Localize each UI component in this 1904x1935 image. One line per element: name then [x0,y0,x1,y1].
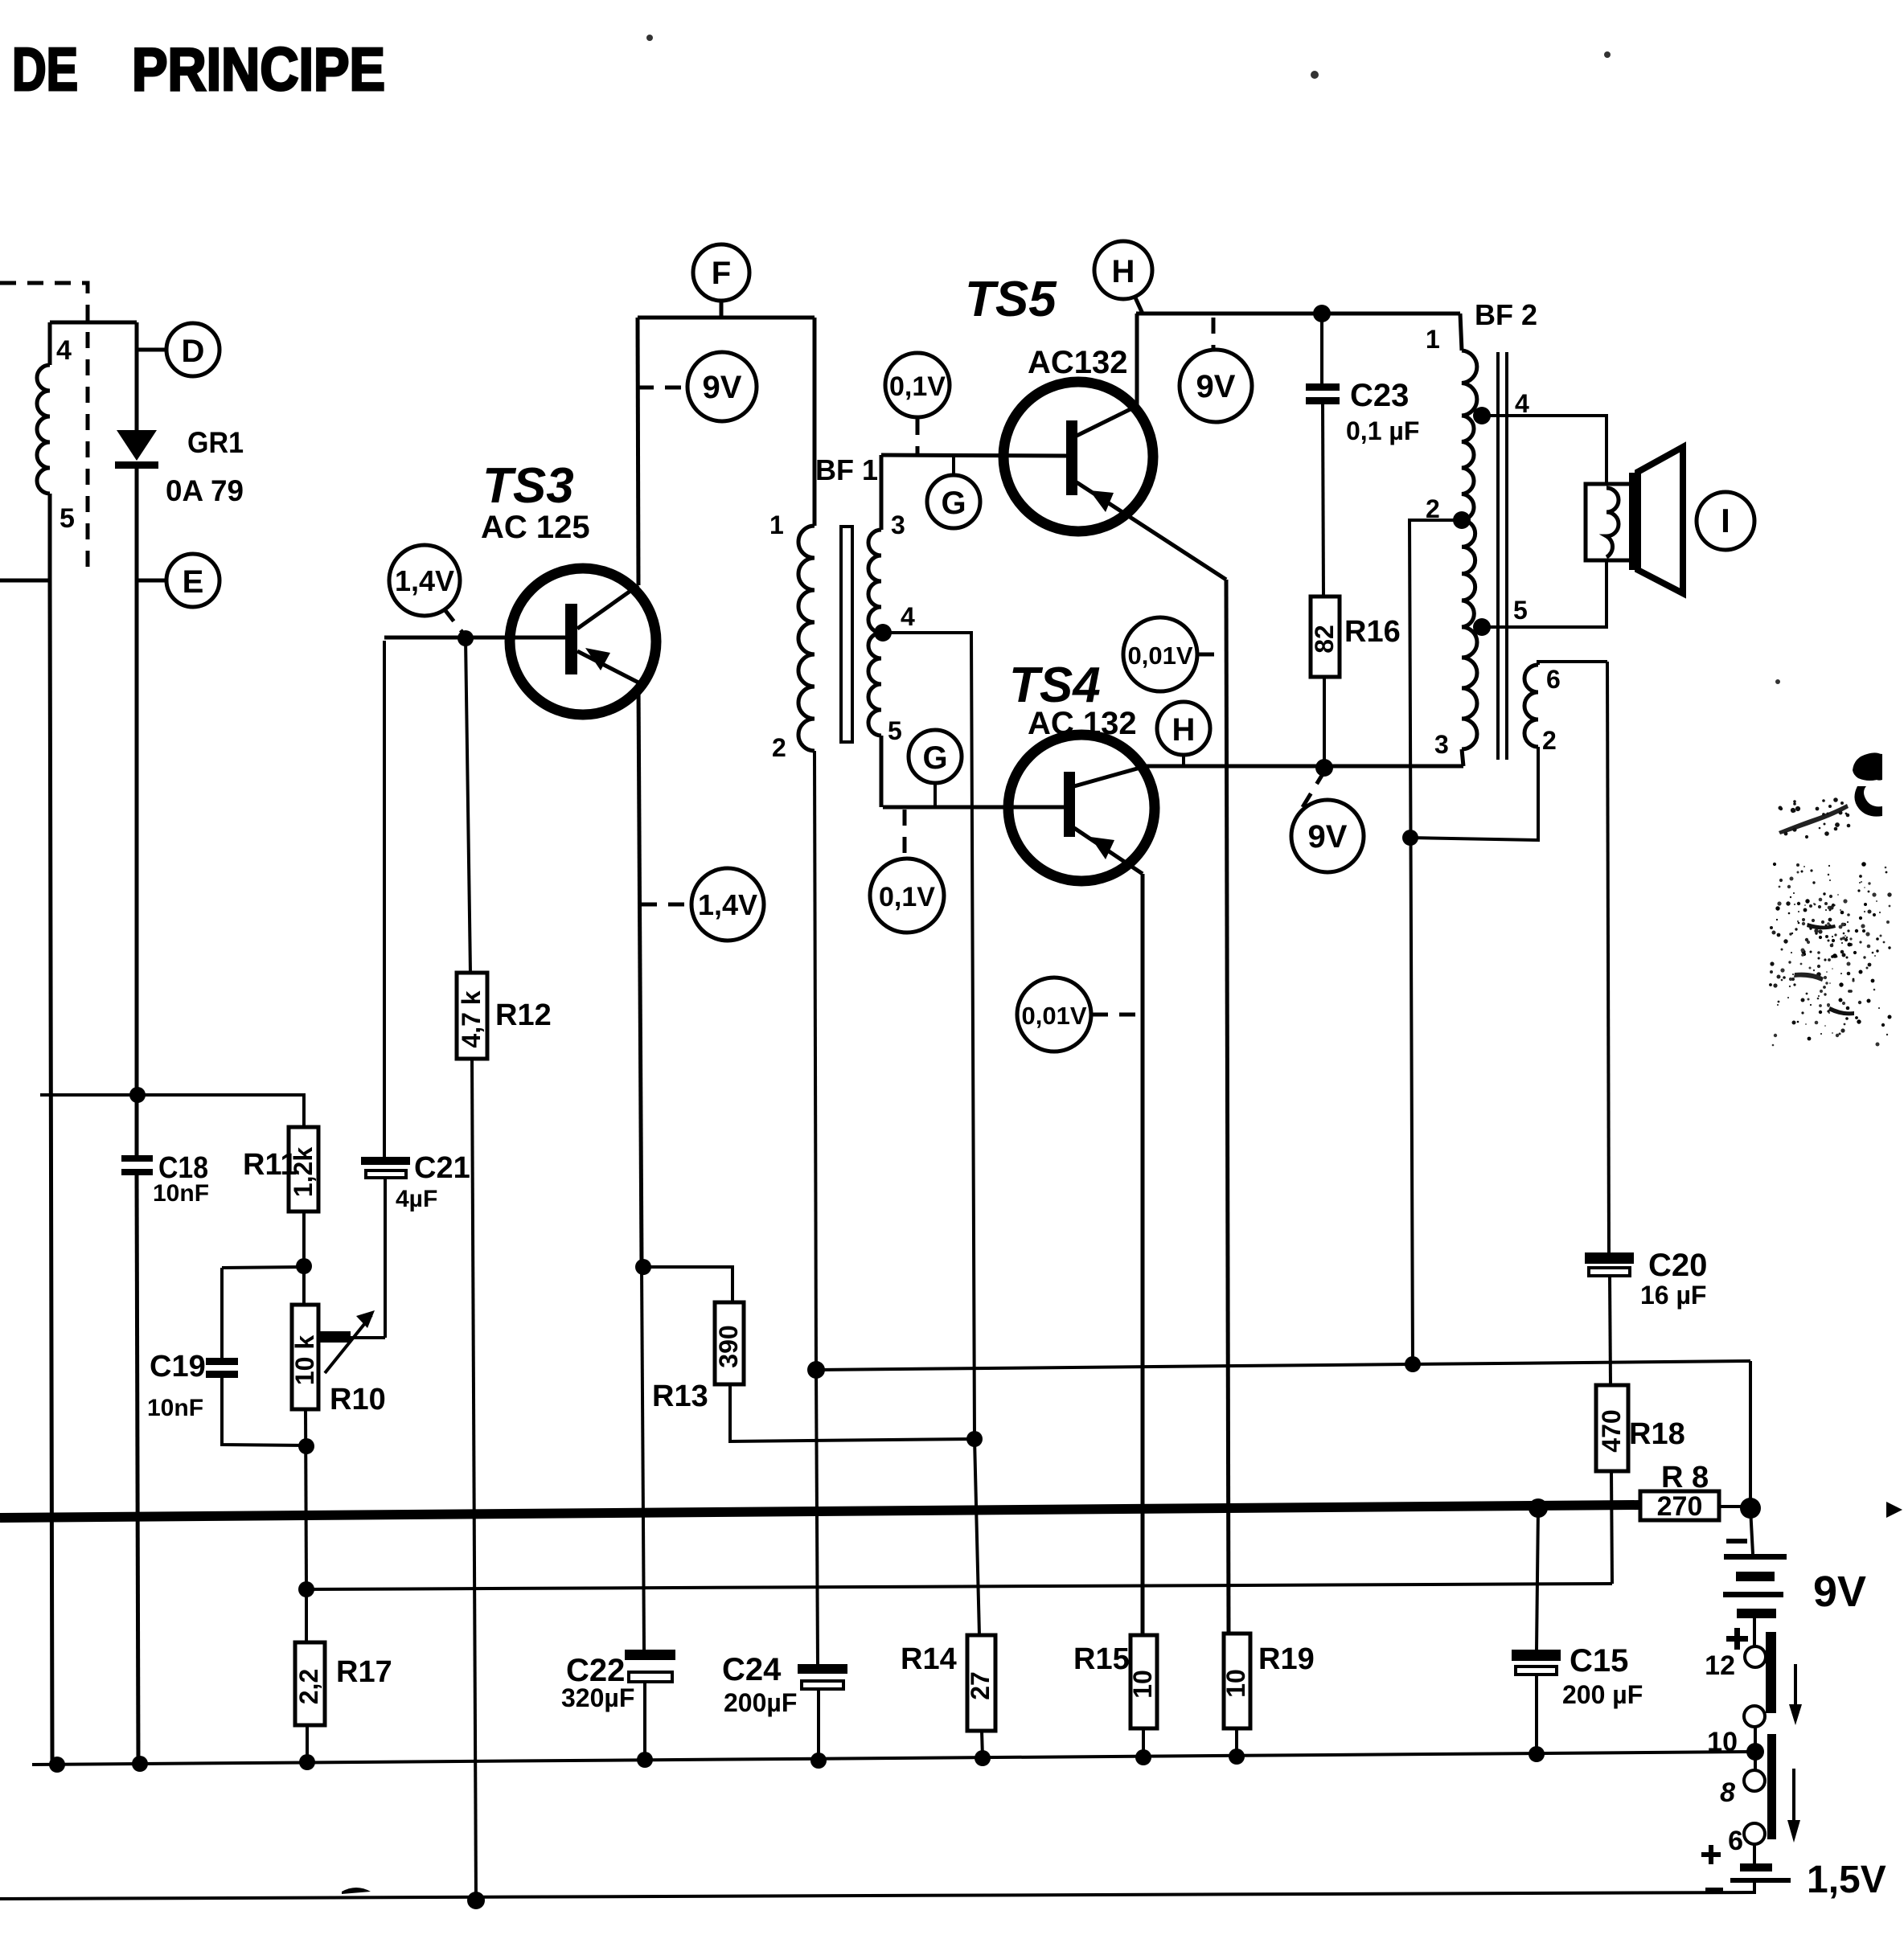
svg-text:4µF: 4µF [396,1186,437,1212]
svg-text:9V: 9V [1308,819,1348,855]
svg-text:10: 10 [1221,1669,1250,1698]
svg-text:PRINCIPE: PRINCIPE [132,35,385,103]
svg-text:R19: R19 [1258,1642,1315,1676]
svg-text:4: 4 [901,602,915,631]
svg-text:C21: C21 [414,1151,470,1185]
svg-text:200µF: 200µF [724,1688,797,1717]
svg-text:C24: C24 [722,1652,782,1687]
svg-text:27: 27 [966,1671,995,1700]
svg-text:0,1 µF: 0,1 µF [1346,416,1419,445]
svg-text:E: E [183,564,204,600]
svg-text:3: 3 [891,510,905,539]
svg-text:5: 5 [1513,596,1528,625]
svg-text:R16: R16 [1344,615,1401,649]
svg-text:9V: 9V [1813,1568,1866,1616]
svg-text:2,2: 2,2 [294,1669,323,1704]
svg-text:TS3: TS3 [482,458,574,514]
svg-text:6: 6 [1546,665,1561,694]
svg-text:2: 2 [772,733,786,762]
svg-text:270: 270 [1657,1491,1703,1522]
svg-text:5: 5 [888,716,902,745]
svg-text:R 8: R 8 [1661,1461,1709,1494]
svg-text:C20: C20 [1648,1248,1707,1283]
svg-text:4: 4 [1515,389,1529,418]
svg-text:6: 6 [1728,1826,1743,1856]
svg-text:8: 8 [1720,1777,1735,1808]
svg-text:TS4: TS4 [1009,658,1101,713]
svg-text:F: F [712,256,731,291]
svg-text:10: 10 [1707,1727,1738,1757]
svg-text:R10: R10 [330,1383,386,1416]
svg-text:GR1: GR1 [187,426,244,459]
svg-text:4,7 k: 4,7 k [457,990,486,1047]
svg-text:12: 12 [1705,1650,1735,1681]
svg-text:D: D [182,334,205,369]
svg-text:R12: R12 [495,998,552,1032]
svg-text:10: 10 [1128,1670,1157,1699]
svg-text:1,5V: 1,5V [1807,1859,1886,1901]
svg-text:TS5: TS5 [965,272,1057,327]
svg-text:1,4V: 1,4V [395,564,454,597]
svg-text:5: 5 [59,503,75,534]
svg-text:9V: 9V [703,370,742,405]
svg-text:9V: 9V [1196,369,1236,404]
svg-text:10nF: 10nF [147,1395,203,1421]
svg-text:DE: DE [12,35,78,103]
svg-text:H: H [1112,254,1135,289]
svg-text:0,1V: 0,1V [889,371,946,402]
svg-text:G: G [922,740,947,776]
svg-text:2: 2 [1542,726,1557,755]
svg-text:1: 1 [769,510,784,539]
svg-text:G: G [941,486,966,521]
svg-text:BF 1: BF 1 [815,453,878,486]
svg-text:AC132: AC132 [1028,345,1128,380]
svg-text:0,01V: 0,01V [1021,1002,1086,1030]
svg-text:1: 1 [1426,325,1440,354]
svg-text:1,2k: 1,2k [289,1147,318,1197]
svg-text:470: 470 [1597,1409,1626,1452]
svg-text:BF 2: BF 2 [1475,298,1537,331]
svg-text:R15: R15 [1073,1642,1130,1676]
svg-text:C23: C23 [1350,378,1409,413]
svg-text:R18: R18 [1629,1417,1685,1451]
svg-text:C19: C19 [150,1350,206,1384]
svg-text:3: 3 [1434,730,1449,759]
svg-text:4: 4 [56,335,72,366]
svg-text:320µF: 320µF [561,1683,634,1712]
svg-text:1,4V: 1,4V [698,888,757,921]
svg-text:390: 390 [714,1325,743,1367]
svg-text:10 k: 10 k [290,1335,319,1385]
svg-text:R14: R14 [901,1642,957,1676]
svg-text:0,1V: 0,1V [879,882,935,912]
svg-text:0,01V: 0,01V [1127,642,1192,670]
svg-text:R13: R13 [652,1380,708,1413]
svg-text:R17: R17 [336,1655,392,1689]
svg-text:I: I [1721,502,1730,539]
svg-text:10nF: 10nF [153,1180,209,1207]
svg-text:C15: C15 [1570,1643,1628,1679]
svg-text:H: H [1172,712,1196,748]
svg-text:AC 132: AC 132 [1028,706,1137,741]
svg-text:200 µF: 200 µF [1562,1680,1643,1709]
svg-text:0A 79: 0A 79 [166,474,244,507]
svg-text:82: 82 [1310,625,1339,654]
svg-text:AC 125: AC 125 [481,510,590,545]
svg-text:16 µF: 16 µF [1640,1281,1706,1310]
